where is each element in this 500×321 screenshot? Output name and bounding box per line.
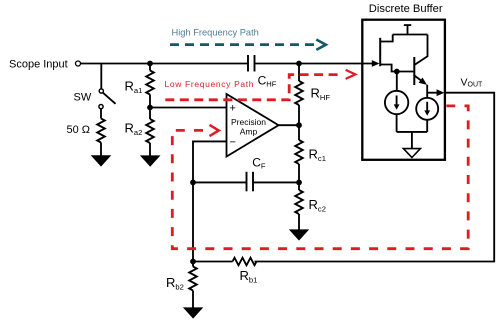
wire I2 bottom: [426, 120, 428, 132]
resistor Ra2: [146, 119, 154, 143]
junction dot on input wire at RHF: [296, 61, 302, 67]
ground below Rc2: [289, 229, 309, 240]
Low Frequency Path dashed arrow (top): [165, 75, 342, 100]
wire Rc2 to ground: [298, 214, 300, 230]
wire Rc1 top lead: [298, 125, 300, 140]
capacitor CF: [247, 172, 254, 192]
svg-text:Amp: Amp: [240, 127, 258, 137]
wire Ra1 top lead: [149, 64, 151, 71]
svg-text:Precision: Precision: [231, 117, 266, 127]
wire Rc2 top lead: [298, 182, 300, 190]
capacitor CHF: [248, 55, 255, 72]
svg-text:Discrete Buffer: Discrete Buffer: [369, 3, 443, 15]
wire CF right: [253, 181, 299, 183]
wire to buffer ground: [411, 132, 413, 149]
wire bottom join: [397, 131, 428, 133]
wire switch to 50 ohm resistor: [100, 109, 102, 119]
wire output tap: [427, 92, 438, 94]
High Frequency Path dashed arrow: [170, 43, 317, 46]
wire main top (terminal to CHF left plate): [81, 63, 248, 65]
Q2 collector: [414, 35, 427, 66]
I2 arrowhead: [424, 110, 430, 115]
svg-text:Low Frequency Path: Low Frequency Path: [165, 79, 255, 89]
switch SW bottom contact: [99, 105, 103, 109]
top rail: [393, 34, 428, 36]
arrowhead into buffer input: [372, 60, 380, 67]
ground below Ra2: [140, 155, 161, 166]
Q1 source: [380, 65, 414, 72]
junction dot CF left node: [190, 180, 196, 186]
wire Ra2 to ground: [149, 143, 151, 156]
I1 arrowhead: [394, 104, 400, 109]
arrowhead red into op-amp: [210, 125, 219, 136]
wire switch branch: [100, 64, 102, 89]
wire node A to op-amp + input: [150, 107, 227, 109]
svg-text:High Frequency Path: High Frequency Path: [172, 28, 259, 38]
wire bottom node to Rb1: [193, 261, 233, 263]
ground below 50 ohm: [91, 155, 112, 166]
svg-text:+: +: [230, 103, 236, 115]
I2 arrow shaft: [426, 102, 428, 112]
resistor 50 ohm: [97, 119, 105, 143]
wire RHF top lead: [298, 64, 300, 82]
svg-text:Scope Input: Scope Input: [9, 59, 68, 71]
junction dot bottom feedback node: [190, 259, 196, 265]
wire CF left: [193, 181, 247, 183]
junction dot on input wire at Ra1: [147, 61, 153, 67]
junction dot op-amp output node: [296, 122, 302, 128]
supply tick: [404, 24, 411, 26]
wire emitter to current source I2: [426, 85, 428, 98]
Q2 emitter: [414, 76, 424, 84]
resistor Rb2: [189, 267, 197, 291]
wire 50 ohm to ground: [100, 143, 102, 156]
resistor Rc1: [295, 140, 303, 164]
current source I1 circle: [385, 91, 408, 114]
wire node B to current source I1: [396, 72, 398, 92]
wire op-amp inverting input: [193, 141, 227, 261]
switch SW blade: [103, 93, 116, 104]
wire RHF to output node: [298, 105, 300, 125]
op-amp U1 Precision Amp: [227, 94, 279, 157]
junction node A (Ra1/Ra2/op-amp +): [147, 105, 153, 111]
arrowhead buffer output to VOUT: [437, 89, 445, 96]
wire Rb1 to VOUT feedback: [255, 93, 495, 262]
resistor Rc2: [295, 190, 303, 214]
svg-text:SW: SW: [74, 92, 92, 104]
resistor Ra1: [146, 71, 154, 95]
wire main top (CHF right plate to buffer input): [255, 63, 373, 65]
input terminal (Scope Input): [76, 61, 81, 66]
resistor RHF: [295, 81, 303, 105]
Discrete Buffer box: [362, 20, 445, 160]
ground below Rb2: [183, 307, 203, 318]
Q2 emitter arrowhead: [419, 78, 427, 85]
transistor Q1 JFET channel bar: [379, 38, 381, 66]
wire Ra2 leads: [149, 108, 151, 120]
wire Rb2 top lead: [192, 262, 194, 267]
Q1 drain: [380, 35, 393, 42]
current source I2 circle: [416, 98, 438, 120]
svg-text:−: −: [230, 137, 236, 149]
wire Ra1 to node A: [149, 95, 151, 108]
svg-text:50 Ω: 50 Ω: [67, 124, 91, 136]
junction dot node B (JFET source / Q2 base / I1): [394, 69, 400, 75]
low frequency feedback dashed loop: [172, 106, 468, 249]
buffer ground (open): [403, 149, 420, 158]
I1 arrow shaft: [396, 96, 398, 107]
transistor Q2 BJT base bar: [413, 57, 415, 85]
wire I1 bottom: [396, 114, 398, 132]
resistor Rb1: [233, 258, 257, 266]
wire Rc1 to CF node: [298, 164, 300, 182]
switch SW top contact: [99, 89, 103, 93]
junction dot CF right node: [296, 180, 302, 186]
wire op-amp output: [279, 124, 299, 126]
wire Rb2 to ground: [192, 291, 194, 308]
